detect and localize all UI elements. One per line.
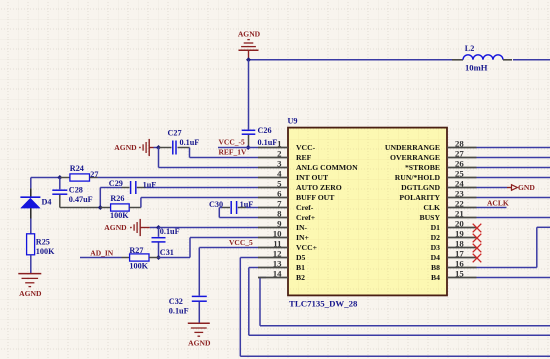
svg-text:C28: C28: [69, 185, 83, 194]
svg-text:1: 1: [277, 139, 281, 149]
svg-text:15: 15: [455, 269, 464, 279]
svg-text:IN+: IN+: [296, 233, 309, 242]
svg-text:CLK: CLK: [423, 203, 440, 212]
svg-text:POLARITY: POLARITY: [399, 193, 440, 202]
svg-text:6: 6: [277, 189, 282, 199]
svg-text:C32: C32: [169, 297, 183, 306]
svg-text:D2: D2: [431, 233, 441, 242]
svg-text:3: 3: [277, 159, 282, 169]
svg-text:REF: REF: [296, 153, 312, 162]
svg-text:23: 23: [455, 189, 464, 199]
svg-text:AGND: AGND: [114, 143, 137, 152]
svg-text:AGND: AGND: [238, 30, 261, 39]
svg-text:7: 7: [277, 199, 282, 209]
svg-text:14: 14: [273, 269, 282, 279]
svg-text:DGTLGND: DGTLGND: [401, 183, 440, 192]
svg-text:17: 17: [455, 249, 464, 259]
svg-text:27: 27: [90, 170, 98, 179]
svg-text:B4: B4: [431, 273, 440, 282]
svg-text:*STROBE: *STROBE: [405, 163, 440, 172]
svg-text:8: 8: [277, 209, 282, 219]
svg-text:VCC_5: VCC_5: [229, 238, 253, 247]
svg-text:TLC7135_DW_28: TLC7135_DW_28: [289, 298, 358, 308]
svg-text:B2: B2: [296, 273, 305, 282]
svg-text:5: 5: [277, 179, 282, 189]
svg-text:C29: C29: [109, 179, 123, 188]
svg-text:11: 11: [273, 239, 281, 249]
svg-text:L2: L2: [465, 44, 475, 53]
svg-text:R26: R26: [110, 194, 124, 203]
svg-text:B8: B8: [431, 263, 440, 272]
svg-text:C31: C31: [160, 248, 174, 257]
svg-text:19: 19: [455, 229, 464, 239]
svg-text:AGND: AGND: [19, 289, 42, 298]
svg-text:D5: D5: [296, 253, 306, 262]
svg-text:1uF: 1uF: [143, 180, 157, 189]
svg-text:INT OUT: INT OUT: [296, 173, 329, 182]
svg-text:9: 9: [277, 219, 282, 229]
svg-text:4: 4: [277, 169, 282, 179]
svg-text:Cref-: Cref-: [296, 203, 314, 212]
svg-text:27: 27: [455, 149, 464, 159]
svg-text:AD_IN: AD_IN: [90, 248, 114, 257]
svg-text:RUN/*HOLD: RUN/*HOLD: [395, 173, 441, 182]
svg-text:22: 22: [455, 199, 464, 209]
svg-text:OVERRANGE: OVERRANGE: [390, 153, 440, 162]
svg-text:18: 18: [455, 239, 464, 249]
svg-text:D1: D1: [431, 223, 441, 232]
svg-text:R27: R27: [129, 246, 143, 255]
svg-text:VCC_-5: VCC_-5: [219, 138, 245, 147]
svg-text:0.1uF: 0.1uF: [160, 227, 180, 236]
svg-text:0.1uF: 0.1uF: [258, 138, 278, 147]
svg-text:26: 26: [455, 159, 464, 169]
svg-text:2: 2: [277, 149, 282, 159]
svg-text:Cref+: Cref+: [296, 213, 315, 222]
svg-text:BUFF OUT: BUFF OUT: [296, 193, 335, 202]
svg-text:B1: B1: [296, 263, 305, 272]
svg-text:REF_1V: REF_1V: [219, 148, 248, 157]
svg-text:ACLK: ACLK: [487, 199, 509, 208]
svg-text:D3: D3: [431, 243, 441, 252]
svg-text:10mH: 10mH: [465, 62, 488, 72]
svg-text:D4: D4: [431, 253, 441, 262]
svg-text:100K: 100K: [129, 261, 148, 270]
svg-text:24: 24: [455, 179, 464, 189]
svg-text:10: 10: [273, 229, 282, 239]
svg-text:UNDERRANGE: UNDERRANGE: [385, 143, 440, 152]
svg-text:D4: D4: [42, 198, 52, 207]
svg-text:AUTO ZERO: AUTO ZERO: [296, 183, 342, 192]
svg-text:0.1uF: 0.1uF: [180, 138, 200, 147]
svg-text:BUSY: BUSY: [419, 213, 440, 222]
svg-text:0.47uF: 0.47uF: [69, 195, 93, 204]
svg-text:ANLG COMMON: ANLG COMMON: [296, 163, 358, 172]
svg-text:20: 20: [455, 219, 464, 229]
svg-text:GND: GND: [518, 183, 535, 192]
svg-text:VCC+: VCC+: [296, 243, 317, 252]
svg-text:28: 28: [455, 139, 464, 149]
svg-text:C27: C27: [168, 129, 182, 138]
svg-text:0.1uF: 0.1uF: [169, 306, 189, 315]
svg-text:16: 16: [455, 259, 464, 269]
svg-text:VCC-: VCC-: [296, 143, 316, 152]
svg-text:12: 12: [273, 249, 282, 259]
svg-text:100K: 100K: [110, 211, 129, 220]
svg-text:AGND: AGND: [104, 223, 127, 232]
svg-text:100K: 100K: [36, 247, 55, 256]
svg-text:C26: C26: [258, 126, 272, 135]
svg-text:IN-: IN-: [296, 223, 308, 232]
svg-text:R25: R25: [36, 237, 50, 246]
svg-text:AGND: AGND: [188, 339, 211, 348]
svg-text:21: 21: [455, 209, 464, 219]
svg-text:25: 25: [455, 169, 464, 179]
svg-text:R24: R24: [70, 164, 84, 173]
svg-text:U9: U9: [288, 117, 298, 126]
svg-text:13: 13: [273, 259, 282, 269]
